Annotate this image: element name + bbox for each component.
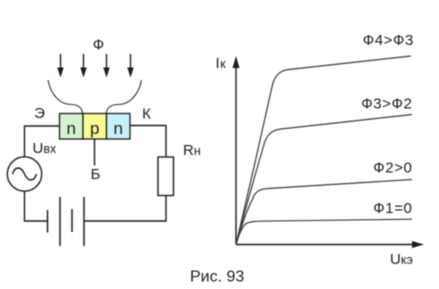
light arrow 3: [103, 54, 109, 78]
svg-text:Uвх: Uвх: [33, 140, 57, 157]
graph X axis Uкэ: [236, 241, 424, 248]
light arrow 4: [127, 54, 133, 78]
battery GB plate short 2: [71, 209, 73, 232]
curve Ф1=0: [236, 219, 412, 244]
svg-text:Uкэ: Uкэ: [390, 251, 413, 268]
svg-text:К: К: [142, 106, 151, 123]
svg-text:n: n: [113, 119, 122, 138]
svg-text:Э: Э: [34, 105, 45, 122]
svg-text:Rн: Rн: [183, 142, 201, 159]
svg-text:Б: Б: [91, 166, 101, 183]
wire AC source to battery: [25, 192, 48, 222]
svg-text:Ф1=0: Ф1=0: [373, 200, 412, 217]
svg-text:Ф2>0: Ф2>0: [373, 160, 412, 177]
curve Ф3>Ф2: [236, 115, 412, 245]
wire battery to resistor: [84, 196, 166, 222]
light arrow 1: [57, 54, 63, 78]
resistor Rн: [158, 157, 174, 196]
wire emitter to AC source: [25, 126, 60, 157]
battery GB plate long 1: [59, 197, 61, 246]
phototransistor emitter n region: [60, 114, 84, 140]
base wire stub: [94, 139, 96, 166]
phototransistor base p region: [83, 114, 107, 140]
AC source Uвх: [7, 157, 41, 191]
graph Y axis Iк: [233, 56, 240, 245]
lens curve left: [48, 80, 83, 114]
svg-text:Ф3>Ф2: Ф3>Ф2: [361, 96, 412, 113]
wire resistor to collector: [130, 126, 166, 158]
phototransistor collector n region: [107, 114, 131, 140]
svg-text:Ф: Ф: [93, 37, 104, 54]
svg-text:p: p: [90, 119, 99, 138]
curve Ф2>0: [236, 180, 412, 245]
battery GB plate long 2: [83, 197, 85, 246]
svg-text:n: n: [66, 119, 75, 138]
svg-text:Ф4>Ф3: Ф4>Ф3: [363, 32, 414, 49]
light arrow 2: [80, 54, 86, 78]
curve Ф4>Ф3: [236, 56, 411, 245]
battery GB plate short 1: [47, 210, 49, 233]
svg-text:Рис. 93: Рис. 93: [190, 269, 244, 286]
svg-text:Iк: Iк: [216, 55, 227, 72]
lens curve right: [106, 80, 141, 114]
